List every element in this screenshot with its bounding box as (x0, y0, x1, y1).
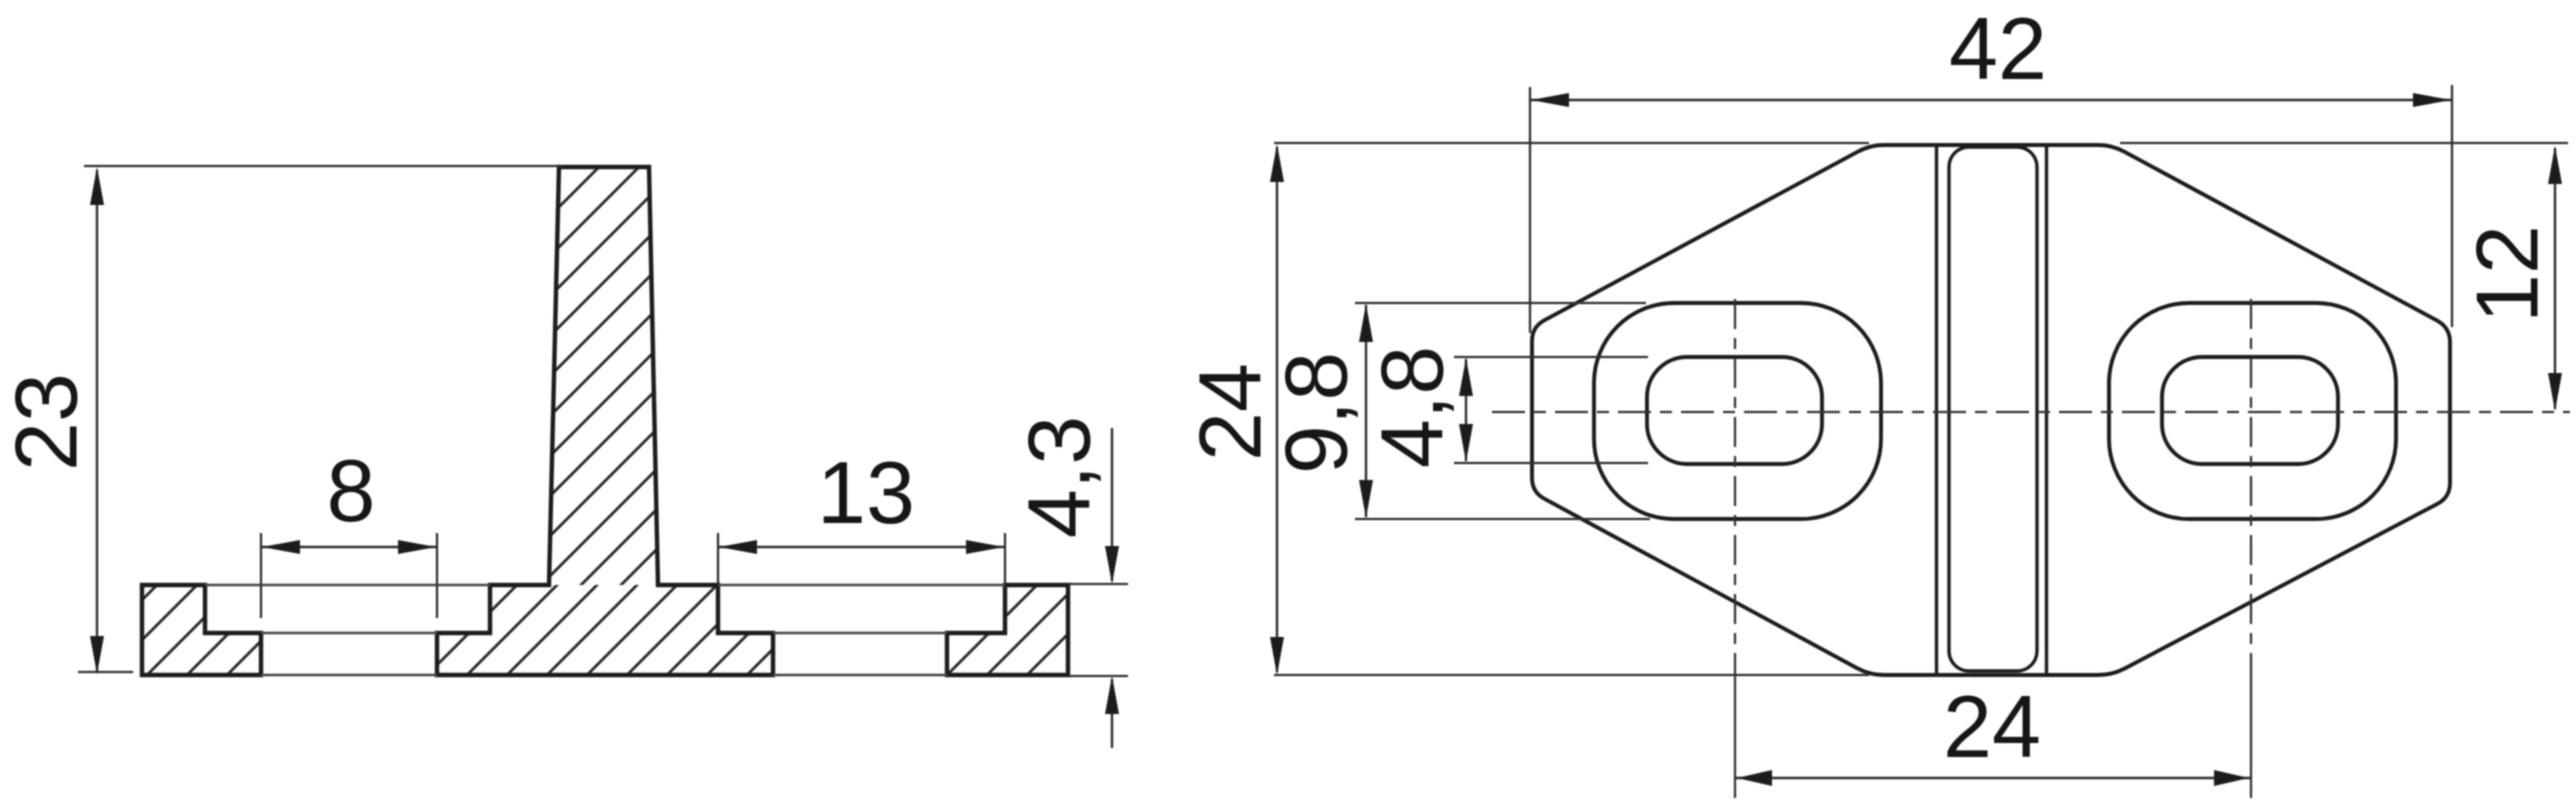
hidden/behind edges: top surface over recesses (205, 584, 1005, 587)
svg-text:24: 24 (1943, 677, 2041, 776)
behind edges: bottom surface over slots (261, 674, 947, 677)
svg-text:4,8: 4,8 (1363, 346, 1462, 468)
dimension 4,3 lines with outside arrows (1111, 428, 1113, 748)
dimension 4,8 extension lines (1454, 357, 1648, 463)
dimension 12 extension line (2120, 142, 2568, 144)
svg-text:24: 24 (1181, 363, 1280, 461)
dimension 4,8 line (1465, 359, 1467, 461)
dimension 9,8 line (1365, 305, 1367, 517)
left hole vertical centerline (1734, 299, 1736, 676)
dimension 12 line (2554, 148, 2556, 409)
left slot inner oval (1647, 357, 1822, 464)
dimension 13 line (718, 546, 1005, 548)
section: central block with fin outline (437, 167, 773, 675)
svg-text:4,3: 4,3 (1010, 416, 1109, 538)
dimension 8 extension lines (261, 533, 437, 618)
dimension 24 (height) line (1276, 147, 1278, 672)
right boss outer oval (2109, 303, 2396, 519)
dimension 23 line (96, 170, 98, 671)
right slot inner oval (2162, 357, 2338, 464)
svg-text:8: 8 (327, 441, 376, 540)
left boss outer oval (1594, 303, 1881, 519)
svg-text:23: 23 (0, 373, 96, 471)
dimension 42 line (1530, 99, 2452, 101)
svg-text:42: 42 (1949, 0, 2047, 98)
dimension 8 line (261, 546, 437, 548)
horizontal centerline (1492, 411, 2570, 413)
dimension 9,8 extension lines (1355, 303, 1650, 519)
dimension 24 (height) extension lines (1274, 143, 1869, 675)
dimension 23 extension lines (78, 166, 562, 672)
dimension 4,3 extension lines (1068, 584, 1128, 676)
dimension 13 extension lines (718, 533, 1005, 583)
svg-text:13: 13 (817, 443, 915, 542)
svg-text:12: 12 (2458, 225, 2557, 323)
section: left L-block (142, 585, 261, 675)
plate outline (rounded octagon) (1532, 145, 2450, 675)
fin top face rounded rect (1949, 147, 2037, 671)
svg-text:9,8: 9,8 (1267, 352, 1366, 474)
fin outer edges (top view) (1937, 145, 2047, 675)
behind edges: counterbore floor over slots (261, 632, 947, 635)
dimension 42 extension lines (1530, 85, 2452, 333)
section: fin hatch (549, 167, 658, 585)
section: central block base hatch (437, 585, 773, 675)
dimension 24 (holes) line (1735, 777, 2251, 779)
section: right block (947, 585, 1068, 675)
right hole vertical centerline (2250, 299, 2252, 676)
